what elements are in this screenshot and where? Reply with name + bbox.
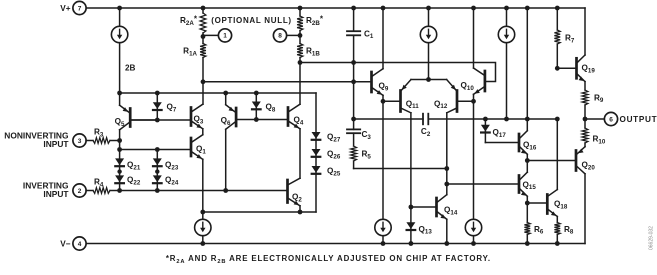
svg-text:4: 4 xyxy=(78,241,82,248)
svg-text:(OPTIONAL NULL): (OPTIONAL NULL) xyxy=(211,16,292,25)
svg-text:INPUT: INPUT xyxy=(43,189,69,199)
svg-text:3: 3 xyxy=(78,138,82,145)
svg-text:V+: V+ xyxy=(60,4,70,13)
svg-text:06629-032: 06629-032 xyxy=(649,226,655,250)
svg-text:V−: V− xyxy=(60,240,70,249)
svg-text:2B: 2B xyxy=(125,64,136,73)
svg-text:6: 6 xyxy=(609,116,613,123)
svg-text:8: 8 xyxy=(278,33,282,40)
svg-text:INPUT: INPUT xyxy=(43,139,69,149)
svg-text:2: 2 xyxy=(78,188,82,195)
svg-text:1: 1 xyxy=(223,33,227,40)
svg-text:OUTPUT: OUTPUT xyxy=(620,115,657,124)
svg-text:7: 7 xyxy=(78,5,82,12)
